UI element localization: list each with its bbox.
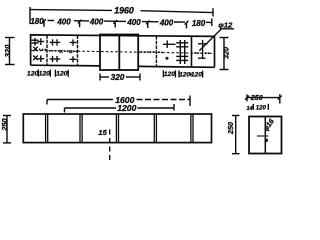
tick at 186.5	[185, 21, 189, 25]
svg-text:1200: 1200	[117, 103, 136, 113]
second cluster: double plus bottom	[50, 56, 61, 62]
svg-text:250: 250	[226, 122, 235, 135]
right vertical dimension 320	[220, 37, 229, 70]
right cluster: plus with bar top	[163, 40, 176, 48]
support block divider	[118, 35, 120, 71]
plan rib pair 4	[153, 114, 155, 143]
svg-text:180: 180	[30, 17, 44, 26]
svg-text:320: 320	[3, 44, 12, 57]
plan rib pair 3	[115, 114, 117, 143]
small x marks on centerline	[60, 50, 73, 53]
dimension line 1960 (overall, top row)	[30, 7, 213, 24]
plan rib pair 5	[190, 114, 192, 143]
tick at 147.8	[146, 20, 150, 24]
tick at 79.6	[78, 20, 82, 24]
left cluster: plus bottom	[37, 55, 44, 62]
right panel divider x=193	[191, 36, 193, 67]
svg-text:400: 400	[56, 17, 71, 26]
stirrup line (dashed) x=47	[46, 35, 48, 65]
svg-text:120: 120	[256, 105, 267, 111]
beam bottom edge (left of support)	[31, 64, 100, 67]
left cluster: anchor mark	[32, 38, 39, 46]
plan rib pair 1	[45, 114, 47, 143]
plan view outline	[23, 114, 211, 143]
tick at 115.2	[113, 20, 117, 24]
svg-text:180: 180	[192, 19, 206, 28]
second cluster: plus bottom single	[70, 56, 77, 62]
plan view: dim 1200	[65, 104, 175, 113]
svg-text:120: 120	[39, 71, 51, 78]
section cross tick	[257, 135, 268, 137]
stirrup line (dashed) x=156.4	[155, 36, 157, 66]
section view outline	[249, 117, 282, 154]
svg-text:120: 120	[27, 70, 39, 77]
svg-text:120: 120	[164, 71, 175, 78]
second cluster: plus top single	[70, 39, 77, 45]
support block under beam (320 wide)	[100, 35, 138, 71]
beam bottom edge (right of support)	[138, 65, 214, 68]
beam elevation outline	[31, 35, 215, 67]
svg-text:120: 120	[191, 72, 202, 79]
right end bar	[211, 19, 213, 27]
dim 320 under support	[100, 74, 140, 81]
tick at 44	[42, 19, 46, 23]
left cluster: plus top	[37, 38, 44, 45]
svg-text:400: 400	[159, 19, 174, 28]
svg-text:400: 400	[126, 18, 141, 27]
plan rib pair 2	[79, 114, 81, 143]
svg-text:400: 400	[89, 18, 104, 27]
plan view: dim 1600	[47, 96, 190, 107]
left cluster: cross bottom	[33, 56, 38, 61]
stirrup line (dashed) x=77.5	[77, 35, 79, 65]
left vertical dimension 320	[5, 37, 15, 65]
svg-text:250: 250	[250, 93, 263, 102]
section view: left vertical dim 250	[232, 115, 240, 154]
stirrup spacing labels left 120 120 120	[27, 70, 68, 78]
right cluster: bent bar mark in end panel	[198, 40, 208, 59]
section rebar dot	[264, 139, 268, 143]
stirrup spacing labels right 120 120 120	[163, 70, 202, 78]
svg-text:320: 320	[222, 47, 231, 59]
svg-text:1960: 1960	[114, 5, 134, 15]
rebar label phi12 with leader	[199, 29, 221, 51]
right cluster: dot bottom	[166, 57, 169, 60]
right cluster: double hash stirrup pair	[176, 40, 188, 64]
svg-text:15: 15	[98, 128, 107, 137]
svg-text:320: 320	[111, 73, 125, 82]
svg-text:φ12: φ12	[218, 20, 233, 29]
section middle web line	[264, 117, 266, 154]
svg-text:250: 250	[0, 117, 9, 131]
svg-text:120: 120	[56, 71, 68, 78]
section view: top dim 250	[245, 94, 282, 103]
plan view: left vertical dim 250	[3, 115, 11, 143]
svg-text:14: 14	[246, 106, 252, 112]
dimension row 180+400+400+400+400+180	[42, 19, 212, 29]
center line (dashed with dots)	[31, 50, 215, 53]
second cluster: double plus top	[50, 39, 61, 45]
section view: sub label (120)	[253, 104, 268, 112]
left cluster: cross mid	[33, 47, 38, 52]
